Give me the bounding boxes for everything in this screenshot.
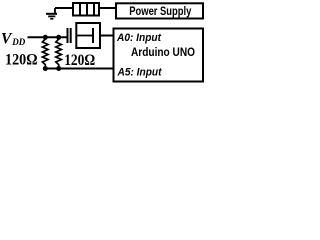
wire to A5 — [45, 68, 113, 70]
junction dot — [56, 35, 61, 40]
svg-text:A5: Input: A5: Input — [117, 67, 163, 79]
svg-text:V: V — [1, 30, 13, 47]
svg-text:Power Supply: Power Supply — [129, 5, 191, 18]
resistor R1 120ohm — [42, 37, 48, 68]
wire — [100, 7, 116, 9]
svg-text:120Ω: 120Ω — [64, 52, 95, 69]
junction dot — [43, 66, 48, 71]
junction dot — [43, 35, 48, 40]
wire — [28, 36, 67, 38]
wire to A0 — [101, 35, 114, 37]
resistor (box style, power supply branch) — [73, 2, 99, 17]
svg-text:DD: DD — [11, 37, 25, 47]
junction dot — [56, 66, 61, 71]
svg-text:Arduino UNO: Arduino UNO — [131, 45, 195, 59]
capacitor plate — [67, 28, 69, 43]
resistor R2 120ohm — [56, 37, 62, 68]
capacitor plate — [70, 28, 72, 43]
Arduino UNO box — [114, 29, 204, 82]
svg-text:A0: Input: A0: Input — [116, 32, 162, 44]
svg-text:120Ω: 120Ω — [5, 52, 38, 69]
sensor box with internal electrode — [76, 23, 100, 48]
wire — [55, 7, 72, 9]
Power Supply box — [116, 3, 203, 18]
ground — [46, 8, 57, 19]
